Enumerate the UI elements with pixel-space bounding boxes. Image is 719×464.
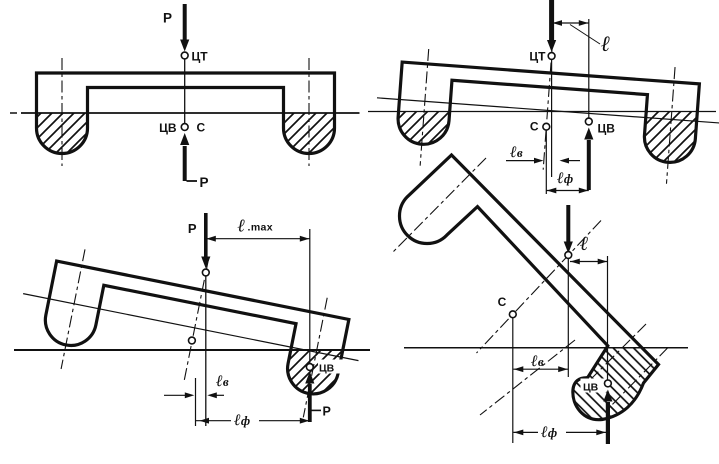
svg-text:ℓв: ℓв <box>509 144 523 161</box>
svg-text:ЦВ: ЦВ <box>159 121 177 135</box>
hull outline P4 <box>399 155 658 420</box>
buoyancy up arrow P4 <box>603 390 612 445</box>
svg-text:C: C <box>530 120 539 134</box>
dimension l P4 <box>570 259 608 265</box>
centerline right float P3 <box>303 298 327 418</box>
svg-text:ЦТ: ЦТ <box>192 50 209 64</box>
waterline P2 <box>368 111 716 113</box>
dimension l.max P3 <box>206 236 310 242</box>
hull centerline axis P2 <box>543 40 553 170</box>
center axis line P1 <box>184 58 186 124</box>
svg-text:P: P <box>188 221 197 236</box>
node CT P3 <box>202 269 209 276</box>
node CV P3 <box>306 364 313 371</box>
svg-text:P: P <box>323 405 331 419</box>
waterline P1 <box>10 112 17 114</box>
dimension l P2 <box>552 20 589 26</box>
label lf P4 <box>538 421 566 435</box>
svg-text:ℓ: ℓ <box>580 233 589 255</box>
label P bottom P3 <box>312 409 322 411</box>
second transverse dash line P4 <box>586 324 646 384</box>
transverse line at waterline P4 <box>480 340 575 415</box>
node CT P2 <box>548 53 555 60</box>
node C P4 <box>509 311 516 318</box>
force line below CT P2 <box>551 59 553 177</box>
centerline right float P1 <box>308 58 310 166</box>
C extension vertical P3 <box>195 378 197 426</box>
centerline left float P4 <box>391 158 486 254</box>
CV vertical line P4 <box>607 256 609 380</box>
centerline left float P2 <box>420 49 429 166</box>
force P down arrow P2 <box>547 0 556 52</box>
svg-text:ЦВ: ЦВ <box>598 122 616 136</box>
svg-text:ℓ: ℓ <box>238 216 246 236</box>
hatch P4 <box>560 348 700 458</box>
CV vertical line P3 <box>309 229 311 363</box>
svg-text:ℓф: ℓф <box>233 412 250 429</box>
svg-text:ЦВ: ЦВ <box>319 363 335 375</box>
node CV P2 <box>585 118 592 125</box>
hull outline P2 <box>372 28 719 191</box>
force P down arrow P1 <box>180 4 189 52</box>
dimension lf P4 <box>513 430 607 436</box>
node CV P4 <box>605 380 612 387</box>
svg-text:ЦВ: ЦВ <box>583 382 599 394</box>
hull-frame flotation line P2 <box>377 98 719 126</box>
waterline P4 <box>404 347 688 349</box>
svg-text:C: C <box>197 121 206 135</box>
CV vertical line P2 <box>588 19 590 118</box>
force P down arrow P3 <box>201 213 210 269</box>
hatch P1 <box>20 113 350 173</box>
hull outline P3 <box>10 224 372 426</box>
svg-text:ℓф: ℓф <box>556 170 573 187</box>
leader to l label P2 <box>570 25 600 45</box>
node CT P1 <box>181 52 188 59</box>
hatch P2 <box>380 112 700 182</box>
svg-text:ℓ: ℓ <box>601 31 610 56</box>
node C P2 <box>543 123 550 130</box>
node CV P1 <box>181 124 188 131</box>
dimension lv arrows P2 <box>506 158 580 164</box>
C vertical P4 <box>512 318 514 443</box>
svg-text:P: P <box>163 11 172 26</box>
dimension lf P3 <box>196 418 310 424</box>
hull outline P1 <box>37 73 335 154</box>
hatch P3 <box>180 350 380 410</box>
force line below CT P4 <box>567 259 569 378</box>
svg-text:ℓв: ℓв <box>215 373 229 390</box>
label CV P4 <box>581 379 607 393</box>
C vertical extension P2 <box>545 130 547 194</box>
dimension lv P4 <box>513 366 568 372</box>
buoyancy up arrow P2 <box>584 128 593 191</box>
svg-text:P: P <box>200 175 209 190</box>
label CV P3 <box>318 360 343 374</box>
hull-frame flotation line P3 <box>23 294 358 361</box>
waterline P3 <box>14 349 370 351</box>
node CT P4 <box>565 252 572 259</box>
hull centerline axis P4 <box>477 221 602 354</box>
svg-text:ℓв: ℓв <box>530 353 544 370</box>
force line below CT P3 <box>205 276 207 426</box>
dimension lf P2 <box>546 188 589 194</box>
hull centerline axis P3 <box>184 258 209 384</box>
buoyancy up arrow P3 <box>305 372 314 423</box>
svg-text:.max: .max <box>248 222 274 234</box>
svg-text:ЦТ: ЦТ <box>529 50 546 64</box>
svg-text:ℓф: ℓф <box>540 424 557 441</box>
label lf P3 <box>231 409 259 423</box>
centerline right float P4 <box>607 348 668 411</box>
centerline left float P3 <box>61 249 85 369</box>
force P down arrow P4 <box>564 205 573 254</box>
centerline right float P2 <box>666 67 675 184</box>
label P bottom P1 <box>187 180 198 182</box>
reaction P up arrow P1 <box>180 133 189 181</box>
svg-text:C: C <box>498 295 507 309</box>
centerline left float P1 <box>61 58 63 166</box>
node C P3 <box>189 337 196 344</box>
dimension lv arrows P3 <box>164 392 224 398</box>
